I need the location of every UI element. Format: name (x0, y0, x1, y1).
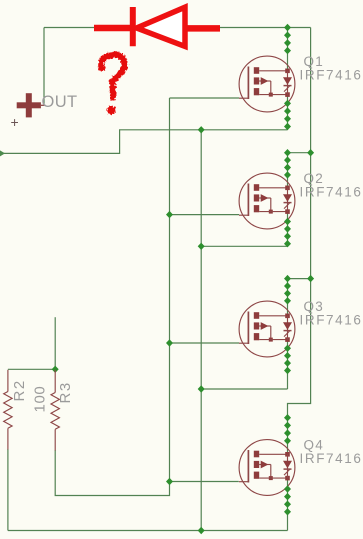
resistor R2 (4, 370, 12, 450)
svg-text:+: + (11, 114, 19, 130)
wire Q1 source pin (287, 95, 289, 130)
wire Q3 source link (201, 388, 287, 390)
node Q4 drain pins (284, 414, 291, 444)
wire Q1 drain pin (287, 28, 289, 71)
transistor Q3 (239, 301, 295, 357)
node Q1 drain pins (284, 24, 291, 55)
node Q2 drain pins (284, 149, 291, 179)
node source junction Q3 (198, 385, 205, 392)
svg-text:R2: R2 (11, 379, 28, 401)
node resistor top junction (52, 366, 59, 373)
node Q4 source pins (284, 485, 291, 515)
svg-text:100: 100 (31, 386, 48, 413)
wire Q3 source pin (287, 340, 289, 389)
transistor Q1 (239, 56, 295, 112)
transistor Q2 (239, 173, 295, 229)
node bus junction A (307, 149, 314, 156)
node gate junction Q3 (166, 339, 173, 346)
wire Q2 source link (201, 245, 287, 247)
wire top rail from OUT to drain bus (44, 27, 311, 29)
wire OUT supply drop (43, 28, 45, 105)
node source junction Q2 (198, 243, 205, 250)
wire stub above R3 (54, 317, 56, 369)
svg-text:IRF7416: IRF7416 (300, 451, 363, 466)
wire gate stub Q3 (170, 342, 240, 344)
svg-text:IRF7416: IRF7416 (300, 68, 363, 83)
wire Q3 drain pin (287, 279, 289, 316)
wire gate stub Q1 (170, 97, 240, 99)
wire drain link Q2 (288, 152, 311, 154)
wire gate stub Q2 (170, 214, 240, 216)
question mark annotation (red marker) (101, 55, 124, 115)
wire left source feed (0, 130, 288, 154)
node Q1 source pins (284, 100, 291, 130)
wire Q4 source pin (287, 478, 289, 530)
node input arrow left (0, 150, 5, 156)
svg-text:OUT: OUT (42, 93, 78, 111)
node source junction bottom (198, 527, 205, 534)
wire gate chain vertical (169, 98, 171, 482)
wire drain link Q3 (288, 278, 311, 280)
wire R3 bottom link (55, 450, 169, 496)
node gate junction Q2 (166, 211, 173, 218)
wire bottom rail (8, 530, 288, 532)
wire R2 bottom drop (7, 449, 9, 531)
node Q2 source pins (284, 218, 291, 248)
svg-text:IRF7416: IRF7416 (300, 185, 363, 200)
wire Q2 source pin (287, 212, 289, 247)
transistor Q4 (239, 440, 295, 496)
node source junction top (198, 126, 205, 133)
supply symbol +OUT (17, 93, 46, 117)
node bus junction B (307, 275, 314, 282)
node gate junction Q4 (166, 478, 173, 485)
svg-text:IRF7416: IRF7416 (300, 313, 363, 328)
node Q3 drain pins (284, 275, 291, 305)
node Q3 source pins (284, 345, 291, 375)
wire source chain vertical (200, 130, 202, 531)
wire R2 R3 top link (8, 368, 55, 370)
wire drain bus vertical (288, 28, 311, 455)
svg-text:R3: R3 (57, 381, 74, 403)
resistor R3 (51, 370, 59, 451)
wire Q2 drain pin (287, 153, 289, 188)
wire gate stub Q4 (170, 481, 239, 483)
diode annotation (red marker) (94, 7, 220, 46)
